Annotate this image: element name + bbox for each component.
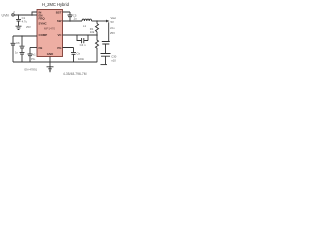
capacitor C6: [11, 43, 16, 45]
wire Cff left leg: [77, 35, 81, 41]
svg-text:GND: GND: [47, 52, 53, 56]
svg-text:n1: n1: [33, 53, 37, 57]
svg-text:25V: 25V: [26, 25, 31, 29]
svg-text:SW: SW: [57, 19, 62, 23]
capacitor C3: [101, 54, 111, 57]
svg-text:MP1470: MP1470: [44, 27, 56, 31]
wire C2-C3: [105, 44, 107, 53]
wire C9 drop: [29, 48, 31, 54]
capacitor C2: [102, 42, 110, 45]
wire riser to IN pin: [32, 12, 37, 15]
svg-text:UVin: UVin: [2, 13, 10, 17]
wire R1 drop: [96, 21, 98, 24]
wire BST stub: [63, 12, 71, 15]
svg-text:C6: C6: [16, 41, 20, 45]
wire U1 GND drop: [49, 57, 51, 67]
svg-text:EN-47891: EN-47891: [25, 67, 38, 71]
wire FB stub: [30, 47, 37, 49]
svg-text:FB: FB: [39, 46, 43, 50]
wire Vin to U1: [14, 14, 37, 16]
wire output cap drop: [108, 22, 110, 41]
capacitor C7: [20, 46, 25, 48]
inductor L1: [82, 19, 92, 21]
svg-text:1n: 1n: [15, 50, 19, 54]
capacitor C5: [68, 15, 73, 17]
svg-text:4-35/48-796-7M: 4-35/48-796-7M: [63, 72, 87, 76]
svg-text:.1u: .1u: [73, 17, 77, 21]
svg-text:2: 2: [13, 10, 15, 14]
wire C1 drop: [18, 15, 20, 19]
wire Cff right leg: [84, 35, 88, 41]
resistor R2: [96, 35, 99, 62]
IC U1 body: [37, 10, 63, 57]
svg-text:100n: 100n: [78, 57, 85, 61]
wire C7 drop: [21, 36, 23, 46]
ground bar GND3: [101, 64, 108, 66]
input port P1: [12, 14, 14, 16]
wire FB net: [63, 34, 98, 36]
wire C6 to rail: [12, 45, 14, 62]
svg-text:Vout: Vout: [111, 16, 117, 20]
svg-text:L1: L1: [83, 24, 87, 28]
svg-text:10k: 10k: [90, 30, 95, 34]
capacitor C9: [28, 54, 33, 56]
svg-text:C4 n: C4 n: [80, 43, 86, 47]
wire C1 to ground: [18, 21, 20, 26]
svg-text:H_2MC Hybrid: H_2MC Hybrid: [42, 2, 70, 7]
wire C10 to rail: [73, 55, 75, 63]
capacitor C1: [16, 19, 21, 21]
wire PG stub: [63, 48, 74, 53]
svg-text:Cs: Cs: [77, 52, 81, 56]
wire C3 to bar: [105, 56, 107, 64]
wire L1 to Vout: [92, 20, 106, 22]
wire COMP net: [13, 35, 37, 37]
capacitor C4: [82, 38, 84, 43]
wire C5 to SW: [69, 17, 71, 21]
svg-text:22u: 22u: [110, 26, 115, 30]
svg-text:BST: BST: [56, 10, 62, 14]
svg-text:n10: n10: [111, 59, 116, 63]
ground GND2: [47, 67, 54, 72]
svg-text:25V: 25V: [110, 31, 115, 35]
wire C6 drop: [12, 36, 14, 43]
wire SW node: [63, 20, 83, 22]
capacitor C10: [71, 53, 76, 55]
capacitor C8: [20, 52, 25, 54]
ground rail: [13, 61, 97, 63]
svg-text:FRQ: FRQ: [39, 16, 46, 20]
output arrow: [106, 20, 110, 23]
svg-text:4.7u: 4.7u: [22, 20, 28, 24]
wire C9 to rail: [29, 56, 31, 62]
junction dots: [18, 14, 98, 37]
svg-text:PG.: PG.: [31, 57, 36, 61]
resistor R1: [96, 24, 99, 32]
wire C8 to rail: [21, 54, 23, 62]
wire C7-C8: [21, 48, 23, 52]
svg-text:SYNC: SYNC: [39, 21, 48, 25]
wire R1 to FB: [96, 32, 98, 35]
ground GND1: [16, 26, 22, 29]
svg-text:COMP: COMP: [39, 33, 48, 37]
svg-text:5V: 5V: [111, 20, 114, 24]
